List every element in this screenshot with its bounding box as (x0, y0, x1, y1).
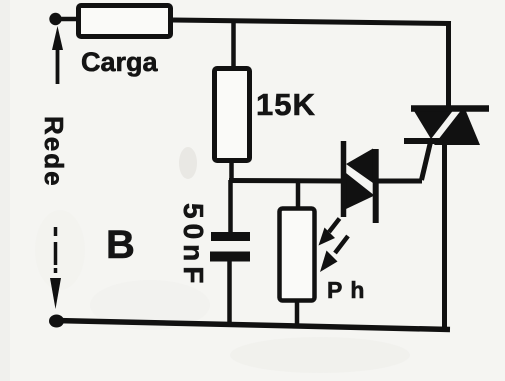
wire: triac anode to top rail (446, 21, 451, 108)
light arrow 2 into Ph (320, 236, 348, 272)
triac (404, 106, 489, 145)
light arrow 1 into Ph (319, 219, 340, 246)
resistor Carga (79, 6, 171, 37)
wire: 15K bottom lead (229, 160, 234, 180)
wire: top-left node to Carga resistor (60, 17, 78, 22)
wire: Ph bottom lead (295, 300, 300, 327)
capacitor 50nF bottom plate (210, 252, 250, 262)
node: bottom-left terminal (49, 315, 64, 328)
svg-text:Carga: Carga (81, 47, 159, 77)
arrow: mains up (52, 26, 63, 84)
wire: diac right terminal to triac gate (377, 179, 422, 184)
wire: bottom rail (55, 321, 450, 330)
wire: triac cathode to bottom rail (442, 143, 447, 330)
resistor 15K (215, 69, 250, 161)
wire: top rail from Carga to triac branch (173, 20, 451, 24)
wire: triac gate diagonal (422, 142, 431, 180)
photoresistor Ph (280, 209, 315, 301)
wire: Ph resistor top lead (296, 179, 301, 208)
svg-text:Rede: Rede (39, 116, 69, 188)
wire: capacitor bottom lead (227, 260, 232, 325)
svg-text:15K: 15K (256, 87, 316, 122)
arrow: mains down dash-dot (50, 227, 61, 309)
wire: branch down to 15K resistor (231, 21, 236, 68)
diac (344, 141, 376, 223)
wire: capacitor top lead (228, 180, 233, 233)
capacitor 50nF top plate (211, 232, 250, 241)
wire: gate node rail from 15K bottom to diac (229, 178, 342, 184)
svg-text:50nF: 50nF (178, 203, 209, 288)
svg-text:Ph: Ph (327, 277, 372, 303)
svg-text:B: B (106, 223, 135, 267)
node: top-left terminal (49, 13, 61, 25)
